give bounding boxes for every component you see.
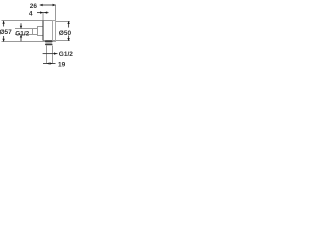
svg-text:Ø50: Ø50 [59, 30, 72, 37]
svg-text:26: 26 [30, 3, 38, 10]
svg-text:Ø57: Ø57 [0, 29, 12, 36]
svg-text:G1/2: G1/2 [15, 30, 29, 37]
svg-text:G1/2: G1/2 [59, 51, 73, 58]
svg-text:19: 19 [58, 61, 66, 68]
svg-text:4: 4 [29, 11, 33, 18]
